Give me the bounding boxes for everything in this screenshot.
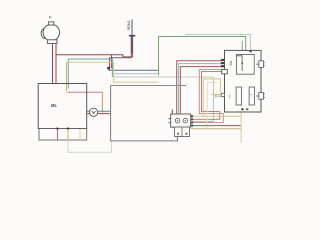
lamp P — [41, 22, 59, 44]
wire red loop R1 connector to relay pin B — [193, 71, 222, 119]
connector right pin 2 — [191, 122, 193, 124]
flow meter circle — [90, 108, 98, 116]
wire yellow vertical into ML box — [66, 62, 68, 91]
connector box with circles — [171, 114, 191, 127]
wire yellow strip — [67, 129, 69, 140]
relay box — [225, 50, 262, 112]
relay lower rect 2 — [249, 87, 254, 105]
wire dark red connector pin3 to tan — [193, 125, 241, 127]
wire pink strip — [57, 129, 59, 140]
wire pink inside ML box — [67, 91, 102, 93]
terminal block below connector — [175, 127, 190, 137]
relay lower rect 1 — [236, 87, 242, 105]
connector right pin 3 — [191, 125, 193, 127]
wire teal bundle 2 — [179, 64, 222, 114]
wire navy junction to green vertical — [109, 69, 159, 71]
wire pale yellow strip — [79, 129, 81, 140]
wire yellow D+L loop — [203, 79, 241, 116]
svg-text:COM2: COM2 — [127, 20, 131, 30]
wire red under flow meter — [87, 113, 111, 115]
wire red bundle 1 — [177, 61, 222, 114]
wire red loop R2 connector to relay pin B — [193, 69, 223, 122]
svg-text:P: P — [49, 15, 52, 20]
connector top-left stub — [171, 110, 173, 115]
wire green bottom run — [68, 140, 111, 152]
relay D+L pin — [221, 93, 224, 96]
wire red lamp to COM terminal — [56, 37, 133, 57]
wire teal drop into ML box — [67, 59, 69, 89]
wire red bundle 3 — [180, 67, 221, 114]
wire blue COM to junction — [110, 37, 132, 71]
relay bottom pin marks — [241, 108, 243, 110]
svg-text:ML: ML — [51, 103, 57, 108]
relay pin block B — [222, 69, 228, 73]
ML box — [38, 84, 86, 129]
wire tan vertical from relay bottom — [240, 112, 242, 142]
connector left stub 1 — [168, 118, 170, 120]
wire cream nest — [207, 83, 217, 129]
wire red lamp left — [52, 44, 54, 84]
relay right connector 1 — [256, 61, 265, 68]
box2 top edge — [111, 85, 186, 87]
wire red drop to junction — [110, 55, 112, 69]
box2 outline — [111, 86, 178, 141]
ML terminal strip — [39, 129, 87, 141]
wire gray faint top run — [185, 35, 250, 51]
relay inner rect — [237, 54, 255, 74]
relay right connector 2 — [256, 93, 265, 100]
wire pale green down to connector — [193, 77, 213, 122]
COM terminal post — [127, 20, 135, 54]
svg-text:30a: 30a — [229, 60, 233, 66]
connector right pin 0 — [191, 115, 193, 117]
wire green main top run — [159, 37, 246, 76]
wire teal horizontal — [68, 59, 112, 77]
relay switch symbol — [237, 56, 243, 71]
wire pale green long — [112, 76, 213, 78]
tiny label left of LR1 — [229, 95, 231, 98]
relay pin block A — [221, 59, 225, 61]
junction dot — [107, 67, 110, 70]
wire gray stub — [241, 41, 243, 51]
connector right pin 1 — [191, 118, 193, 120]
svg-text:D+L: D+L — [215, 95, 221, 99]
wire red lamp right — [55, 44, 57, 84]
wire pale yellow bottom to tan — [191, 128, 241, 130]
connector left stub 2 — [168, 122, 170, 124]
ML bottom pin 2 — [67, 128, 69, 130]
relay top pin — [250, 50, 252, 52]
ML bottom pin 1 — [56, 128, 58, 130]
wire orange drop — [101, 92, 103, 112]
wire pale yellow long — [67, 62, 160, 82]
wire teal to flow meter — [87, 110, 111, 112]
wire yellow stub to D+L — [219, 79, 221, 93]
tiny label inside LR2 — [251, 95, 253, 96]
wire pale horizontal long — [112, 73, 158, 75]
